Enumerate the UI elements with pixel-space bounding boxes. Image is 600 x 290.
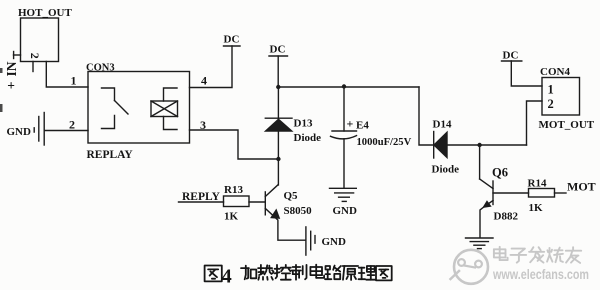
svg-text:www.elecfans.com: www.elecfans.com	[492, 266, 589, 282]
svg-text:2: 2	[28, 53, 42, 59]
scan speck left edge	[0, 68, 3, 73]
wire R14 to MOT	[555, 192, 567, 194]
svg-text:DC: DC	[224, 34, 240, 46]
connector CON4	[539, 66, 595, 131]
svg-text:GND: GND	[322, 236, 347, 248]
svg-text:1: 1	[71, 74, 77, 88]
wire HOT_OUT pin to CON3 pin 1	[46, 62, 88, 88]
wire CON3 pin 3 to node A	[190, 130, 279, 159]
power DC (left)	[224, 34, 241, 47]
caption text 图4 加热控制电路原理图	[205, 265, 392, 288]
resistor R14	[528, 178, 555, 214]
svg-text:Q5: Q5	[284, 190, 299, 202]
svg-text:1000uF/25V: 1000uF/25V	[357, 137, 412, 148]
svg-text:MOT: MOT	[567, 180, 596, 194]
wire GND to CON3 pin 2	[45, 130, 88, 132]
svg-text:DC: DC	[270, 44, 286, 56]
watermark text 电子发烧友	[494, 247, 581, 263]
svg-text:DC: DC	[503, 50, 519, 62]
svg-text:REPLY: REPLY	[182, 191, 221, 203]
pin 1 lead of HOT_OUT	[14, 54, 21, 56]
pin 2 stub of HOT_OUT	[32, 62, 34, 72]
wire Q5 emitter to ground	[276, 219, 305, 241]
transistor Q6	[480, 145, 519, 223]
svg-text:1K: 1K	[529, 202, 544, 214]
junction dot node A	[276, 157, 280, 161]
svg-text:4: 4	[201, 74, 207, 88]
wire DC to CON4 pin 1	[511, 61, 542, 86]
svg-text:E4: E4	[356, 120, 369, 132]
ground (right of Q5)	[306, 227, 346, 255]
svg-text:D14: D14	[433, 119, 452, 131]
wire Q6 emitter to ground	[480, 207, 484, 238]
svg-text:Diode: Diode	[294, 132, 322, 144]
wire R13 to Q5 base	[249, 201, 265, 203]
svg-text:2: 2	[69, 118, 75, 132]
ground (below E4)	[330, 188, 358, 217]
relay CON3	[86, 63, 190, 162]
svg-text:R13: R13	[224, 184, 243, 196]
svg-text:D882: D882	[494, 211, 519, 223]
net label IN+	[4, 61, 19, 93]
wire CON3 pin 4 to DC	[190, 46, 233, 88]
svg-text:S8050: S8050	[284, 205, 313, 217]
svg-text:+: +	[7, 78, 15, 93]
svg-text:GND: GND	[333, 205, 358, 217]
relay switch contact (inside CON3)	[102, 88, 129, 129]
pin number 1 (rotated)	[13, 52, 15, 59]
svg-text:MOT_OUT: MOT_OUT	[539, 119, 595, 131]
connector HOT_OUT	[18, 7, 72, 62]
junction dot at rail/E4	[342, 84, 346, 88]
watermark logo (elecfans)	[451, 250, 489, 284]
scan speck left edge lower	[0, 104, 3, 112]
svg-text:1K: 1K	[224, 211, 239, 223]
svg-text:+: +	[347, 117, 354, 131]
power DC (middle)	[269, 44, 288, 57]
junction dot at rail/D13	[276, 85, 280, 89]
transistor Q5	[265, 185, 312, 219]
resistor R13	[224, 184, 250, 223]
relay coil (inside CON3)	[151, 88, 178, 130]
diode D13	[265, 87, 321, 159]
svg-text:Diode: Diode	[432, 164, 460, 176]
svg-text:3: 3	[200, 118, 206, 132]
junction dot at Q6 collector branch	[477, 143, 481, 147]
wire CON4 pin 2 down to D14 net	[527, 101, 543, 145]
wire +V rail	[278, 86, 419, 88]
svg-text:GND: GND	[7, 126, 32, 138]
svg-text:HOT_OUT: HOT_OUT	[18, 7, 72, 19]
svg-text:2: 2	[548, 97, 554, 111]
ground (left, at CON3 pin 2)	[7, 113, 45, 146]
wire node A to Q5 collector	[277, 159, 279, 185]
svg-text:REPLAY: REPLAY	[87, 149, 134, 161]
ground (below Q6)	[466, 238, 494, 249]
wire DC to +V rail	[277, 56, 279, 87]
svg-text:CON4: CON4	[540, 66, 570, 78]
diode D14	[432, 119, 460, 176]
svg-text:Q6: Q6	[492, 166, 508, 180]
power DC (right)	[502, 50, 522, 62]
svg-text:CON3: CON3	[86, 63, 115, 74]
wire rail to D14	[419, 87, 434, 145]
wire D14 to CON4 branch	[447, 144, 527, 146]
svg-text:1: 1	[548, 83, 554, 97]
svg-text:IN: IN	[4, 61, 19, 76]
capacitor E4	[331, 87, 412, 188]
svg-text:4: 4	[222, 266, 232, 288]
svg-text:D13: D13	[294, 118, 313, 130]
svg-text:R14: R14	[528, 178, 547, 190]
wire REPLY to R13	[179, 201, 224, 203]
wire Q6 base to R14	[493, 192, 529, 194]
